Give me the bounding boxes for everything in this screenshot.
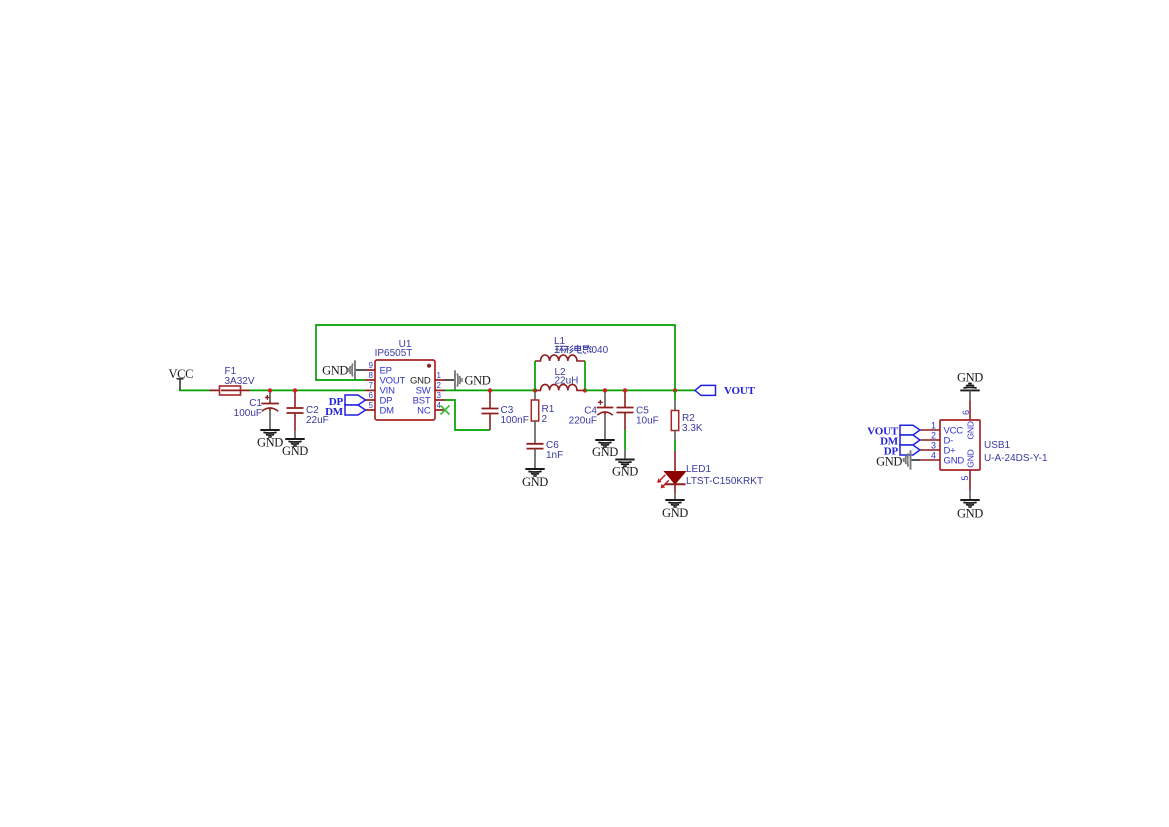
svg-text:4: 4 <box>931 451 936 461</box>
U1 pin 3 BST <box>435 399 445 401</box>
svg-text:GND: GND <box>966 421 976 439</box>
svg-text:L1: L1 <box>554 336 566 347</box>
svg-text:1nF: 1nF <box>546 450 563 461</box>
svg-text:GND: GND <box>592 445 618 459</box>
U1 pin 7 VIN <box>365 389 375 391</box>
net flag DM at USB <box>880 435 920 448</box>
capacitor C5 10uF <box>617 392 659 430</box>
wire VOUT pin8 loop <box>316 325 675 390</box>
svg-text:GND: GND <box>522 475 548 489</box>
svg-text:VOUT: VOUT <box>724 385 756 397</box>
U1 pin 9 EP <box>365 369 375 371</box>
ground at C4 <box>595 440 614 447</box>
svg-text:GND: GND <box>465 374 491 388</box>
node C3 junction <box>488 388 492 392</box>
connector USB1 body <box>940 420 1048 470</box>
op-amp U1 IP6505T body <box>375 339 435 420</box>
svg-text:LED1: LED1 <box>686 464 711 475</box>
svg-text:GND: GND <box>957 370 983 384</box>
svg-text:2: 2 <box>931 431 936 441</box>
USB1 pin 5 GND bottom <box>969 470 971 490</box>
U1 pin 2 SW <box>435 389 445 391</box>
svg-text:9: 9 <box>369 361 374 370</box>
svg-text:8: 8 <box>369 371 374 380</box>
capacitor C2 22uF <box>287 392 329 439</box>
svg-text:3A32V: 3A32V <box>225 376 255 387</box>
net flag DP <box>329 395 366 408</box>
svg-text:GND: GND <box>662 506 688 520</box>
LED LED1 LTST-C150KRKT <box>657 451 763 494</box>
fuse F1 <box>210 366 255 395</box>
svg-text:NC: NC <box>417 406 431 417</box>
ground at USB bottom <box>957 490 983 520</box>
USB1 pin 3 D+ <box>920 449 940 451</box>
node C4 junction <box>603 388 607 392</box>
svg-text:GND: GND <box>612 465 638 479</box>
svg-text:IP6505T: IP6505T <box>375 348 413 359</box>
svg-text:3.3K: 3.3K <box>682 423 703 434</box>
svg-text:040: 040 <box>592 345 609 356</box>
svg-text:5: 5 <box>369 401 374 410</box>
USB1 pin 1 VCC <box>920 429 940 431</box>
svg-text:GND: GND <box>282 444 308 458</box>
wire L1 right vertical <box>584 361 586 390</box>
resistor R2 3.3K <box>671 400 703 440</box>
wire R2 to LED <box>674 440 676 451</box>
ground at C2 <box>285 439 304 446</box>
node L2 right junction <box>583 388 587 392</box>
ground flag at EP <box>322 360 365 379</box>
net flag VOUT at USB <box>867 425 920 437</box>
svg-text:GND: GND <box>957 506 983 520</box>
svg-text:1: 1 <box>437 371 442 380</box>
svg-text:100nF: 100nF <box>501 415 529 426</box>
wire BST to C3 bottom <box>445 400 490 430</box>
resistor R1 <box>531 392 554 444</box>
svg-text:2: 2 <box>437 381 442 390</box>
net flag DP at USB <box>884 445 920 458</box>
svg-text:3: 3 <box>931 441 936 451</box>
svg-text:7: 7 <box>369 381 374 390</box>
ground at C5 <box>615 460 634 467</box>
svg-text:6: 6 <box>961 410 971 415</box>
svg-text:22uH: 22uH <box>555 376 579 387</box>
wire SW rail <box>445 389 535 391</box>
inductor L2 22uH <box>535 367 585 390</box>
node R2 junction <box>673 388 677 392</box>
svg-text:3: 3 <box>437 391 442 400</box>
svg-text:10uF: 10uF <box>636 416 659 427</box>
svg-text:DM: DM <box>325 406 344 418</box>
svg-text:GND: GND <box>257 436 283 450</box>
power port VCC <box>169 367 194 390</box>
net flag VOUT <box>695 385 756 397</box>
svg-text:1: 1 <box>931 421 936 431</box>
node R1 junction <box>533 388 537 392</box>
capacitor C6 1nF <box>527 440 564 469</box>
wire fuse to VIN <box>250 389 366 391</box>
inductor L1 (ring inductor) <box>535 336 609 361</box>
svg-text:USB1: USB1 <box>984 440 1011 451</box>
USB1 pin 4 GND <box>920 459 940 461</box>
svg-text:GND: GND <box>966 449 976 467</box>
svg-text:GND: GND <box>944 456 965 467</box>
no-connect X at pin 4 <box>441 406 450 415</box>
node C2 junction <box>293 388 297 392</box>
node C5 junction <box>623 388 627 392</box>
node C1 junction <box>268 388 272 392</box>
svg-text:100uF: 100uF <box>234 408 262 419</box>
ground flag at USB pin 4 <box>876 450 920 469</box>
ground at USB top (inverted) <box>957 370 983 400</box>
U1 pin 5 DM <box>366 409 376 411</box>
wire L1 left vertical <box>534 361 536 390</box>
U1 pin 6 DP <box>366 399 376 401</box>
net flag DM <box>325 405 365 418</box>
ground flag at U1 pin 1 <box>445 370 491 389</box>
USB1 pin 6 GND top <box>969 401 971 420</box>
capacitor C1 100uF <box>234 392 279 430</box>
ground at C1 <box>260 430 279 437</box>
svg-text:U-A-24DS-Y-1: U-A-24DS-Y-1 <box>984 453 1048 464</box>
capacitor C3 100nF <box>482 392 529 430</box>
U1 pin 1 GND <box>435 379 445 381</box>
wire R2 top <box>674 390 676 400</box>
wire LED to ground <box>674 493 676 500</box>
U1 pin 4 NC <box>435 409 445 411</box>
USB1 pin 2 D- <box>920 439 940 441</box>
wire VCC to fuse <box>179 389 210 391</box>
svg-text:LTST-C150KRKT: LTST-C150KRKT <box>686 476 763 487</box>
svg-text:GND: GND <box>876 455 902 469</box>
wire C5 to ground <box>624 430 626 450</box>
svg-text:GND: GND <box>322 364 348 378</box>
svg-text:6: 6 <box>369 391 374 400</box>
ground at LED1 <box>665 500 684 507</box>
svg-text:DM: DM <box>380 406 395 417</box>
svg-text:5: 5 <box>960 476 970 481</box>
ground at C6 <box>525 469 544 476</box>
svg-text:2: 2 <box>542 414 548 425</box>
capacitor C4 220uF <box>569 392 614 440</box>
svg-text:220uF: 220uF <box>569 416 597 427</box>
wire rail L2 to VOUT <box>585 389 695 391</box>
U1 pin 8 VOUT <box>365 379 375 381</box>
